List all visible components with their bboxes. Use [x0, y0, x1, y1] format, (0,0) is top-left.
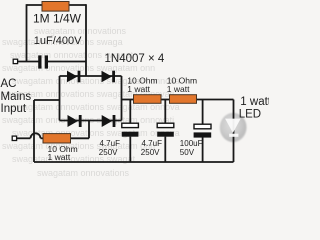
- diode D1: [67, 71, 80, 83]
- label 1 watt LED: [239, 96, 272, 121]
- svg-text:swagatam onnovations swagatam: swagatam onnovations swagatam onn: [2, 141, 155, 151]
- svg-text:1 watt: 1 watt: [167, 84, 190, 94]
- terminal: AC bottom: [12, 136, 16, 140]
- capacitor C2 4.7uF/250V: [122, 123, 139, 137]
- wire: bridge right vertical DC+: [121, 76, 123, 121]
- resistor R1 1M: [42, 2, 69, 12]
- capacitor C1 1uF/400V: [38, 55, 48, 68]
- label 4.7uF 250V (C2): [99, 139, 120, 157]
- resistor R3 10 Ohm: [134, 95, 162, 104]
- wire: AC lower terminal to hop: [17, 137, 31, 139]
- diode D4: [102, 115, 116, 127]
- svg-text:250V: 250V: [99, 148, 118, 157]
- svg-text:1uF/400V: 1uF/400V: [34, 35, 82, 47]
- svg-text:50V: 50V: [180, 148, 195, 157]
- wire: drop to capacitor C4: [202, 100, 204, 125]
- label AC Mains Input: [1, 78, 32, 115]
- wire: up to bridge bottom middle: [88, 121, 90, 139]
- wire: DC minus tap from bridge: [34, 99, 60, 101]
- wire: DC minus vertical to bottom rail: [33, 100, 35, 162]
- LED body: [220, 113, 247, 142]
- wire: 1M loop right vertical down to bridge: [85, 4, 87, 76]
- svg-text:swagatam onnovations: swagatam onnovations: [37, 168, 130, 178]
- wire: bridge bottom rail: [60, 120, 122, 122]
- wire: drop to capacitor C2: [129, 100, 131, 124]
- resistor R4 10 Ohm: [170, 95, 197, 104]
- wire: R1 to R2: [161, 99, 170, 101]
- wire: surge resistor to bridge corner: [71, 137, 90, 139]
- wire: hop over DC minus wire: [31, 133, 41, 138]
- terminal: AC top: [13, 59, 17, 63]
- wire: C3 bottom to rail: [164, 137, 166, 162]
- svg-text:1 watt: 1 watt: [240, 96, 269, 108]
- wire: C4 bottom to rail: [202, 137, 204, 162]
- svg-text:Input: Input: [1, 103, 27, 115]
- diode D3: [68, 115, 82, 127]
- wire: 1M loop top: [27, 4, 87, 6]
- label 10 Ohm 1 watt (R3): [127, 75, 157, 94]
- wire: C2 bottom to rail: [129, 137, 131, 162]
- wire: 1M loop left vertical: [26, 4, 28, 61]
- label 10 Ohm 1 watt (R4): [167, 75, 197, 94]
- wire: capacitor to bridge branch: [48, 61, 86, 63]
- LED chip symbol: [225, 119, 241, 137]
- label 10 Ohm 1 watt (surge): [48, 144, 78, 162]
- svg-text:AC: AC: [1, 78, 17, 90]
- watermark: [2, 26, 180, 178]
- label 4.7uF 250V (C3): [141, 139, 162, 157]
- wire: through LED: [233, 100, 235, 163]
- svg-text:1M 1/4W: 1M 1/4W: [33, 11, 82, 25]
- resistor R2 surge 10 Ohm: [43, 134, 71, 143]
- wire: hop to surge resistor: [41, 137, 44, 139]
- svg-text:LED: LED: [239, 109, 261, 121]
- svg-text:1 watt: 1 watt: [127, 84, 150, 94]
- capacitor C4 100uF/50V: [194, 124, 212, 137]
- wire: DC+ to resistor R1: [122, 99, 134, 101]
- svg-text:Mains: Mains: [1, 91, 32, 103]
- wire: bridge left vertical: [59, 76, 61, 121]
- svg-text:1N4007 × 4: 1N4007 × 4: [105, 53, 165, 65]
- wire: bottom rail: [34, 161, 234, 163]
- wire: AC top terminal to capacitor: [18, 61, 39, 63]
- diode D2: [102, 71, 116, 83]
- svg-text:250V: 250V: [141, 148, 160, 157]
- label 100uF 50V (C4): [180, 139, 203, 157]
- capacitor C3 4.7uF/250V: [157, 123, 174, 137]
- wire: drop to capacitor C3: [164, 100, 166, 124]
- wire: bridge top rail: [60, 75, 122, 77]
- svg-text:1 watt: 1 watt: [48, 152, 71, 162]
- wire: R2 to LED corner: [197, 99, 234, 101]
